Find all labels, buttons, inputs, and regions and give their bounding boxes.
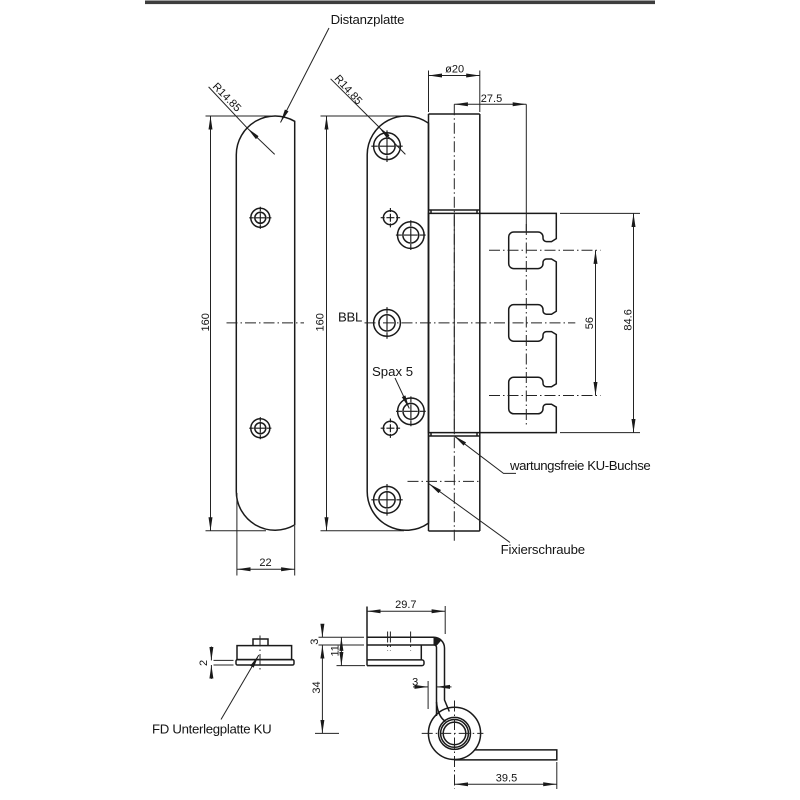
dimension 11 [340, 637, 342, 665]
dimension o20 [429, 75, 480, 77]
svg-text:wartungsfreie KU-Buchse: wartungsfreie KU-Buchse [509, 458, 650, 473]
border frame top edge (cropped drawing frame) [145, 1, 655, 5]
svg-text:Spax 5: Spax 5 [372, 364, 413, 379]
knuckle curl outer circle [428, 707, 480, 759]
hole lower (Distanzplatte) [249, 417, 271, 439]
keyhole bottom slot centerline [489, 395, 601, 397]
bushing outer circle [439, 717, 471, 749]
Fixierschraube axis centerline [408, 480, 481, 482]
svg-text:ø20: ø20 [445, 63, 464, 75]
leader wartungsfreie KU-Buchse [454, 436, 516, 474]
svg-text:Fixierschraube: Fixierschraube [501, 542, 585, 557]
keyhole slot center vertical extension line [525, 104, 527, 231]
dimension 160 (left plate) extension lines [206, 116, 275, 531]
bushing inner circle [441, 720, 469, 748]
hole middle (hinge leaf) [374, 307, 401, 339]
svg-text:11: 11 [329, 645, 341, 656]
hinge leaf plate outline [367, 116, 428, 530]
dimension o20 extension lines [429, 71, 480, 113]
dimension 84.6 [633, 213, 635, 432]
lower bushing washer sides (KU-Buchse) [431, 433, 477, 436]
knuckle axis centerline [453, 104, 455, 543]
curl center crosshair [422, 701, 484, 790]
svg-text:22: 22 [259, 557, 271, 569]
svg-text:3: 3 [309, 639, 321, 645]
clamp lip section [367, 645, 424, 666]
dimension 22 extension lines [237, 493, 295, 576]
radius leader R14.85 (left plate) [248, 128, 275, 154]
dimension 34 extension stub [315, 732, 339, 734]
bottom barrel bottom edge [429, 530, 480, 532]
dimension 2 extension lines [214, 660, 234, 665]
small hole lower (hinge leaf) [381, 419, 400, 438]
dimension 3 (gap) extension line [427, 681, 429, 709]
dimension 3 (leaf thickness) extension lines [319, 637, 366, 665]
svg-text:Distanzplatte: Distanzplatte [331, 12, 405, 27]
svg-text:BBL: BBL [338, 310, 362, 325]
dimension 39.5 extension line right [556, 762, 558, 789]
svg-text:29.7: 29.7 [395, 599, 416, 611]
frame plate outline with three keyhole cutouts [429, 213, 557, 432]
leader Distanzplatte [281, 28, 330, 123]
dimension 3 (gap) arrows [413, 686, 428, 688]
hole bottom (hinge leaf) [371, 484, 402, 516]
knuckle top edge [429, 113, 480, 115]
radius leader R14.85 (hinge leaf) [379, 127, 406, 154]
FD Unterlegplatte centerline [259, 636, 261, 671]
svg-text:34: 34 [311, 681, 323, 693]
screw axis pair (section) [388, 632, 411, 651]
svg-text:56: 56 [584, 317, 596, 329]
knuckle barrel left edge [428, 114, 430, 531]
curl spiral inner transition [437, 702, 446, 722]
bottom barrel top edge [429, 435, 480, 437]
dimension 27.5 [454, 103, 526, 105]
dimension 56 [595, 250, 597, 395]
svg-text:84.6: 84.6 [623, 309, 635, 330]
svg-text:160: 160 [314, 313, 326, 331]
svg-text:160: 160 [200, 313, 212, 331]
svg-text:3: 3 [412, 676, 418, 688]
svg-text:R14.85: R14.85 [332, 73, 365, 107]
dimension 3 (leaf thickness) arrow [321, 626, 323, 637]
keyhole top slot centerline [489, 249, 601, 251]
pin bore circle [443, 722, 466, 745]
svg-text:FD Unterlegplatte KU: FD Unterlegplatte KU [152, 722, 271, 737]
keyhole slot vertical centerline [525, 224, 527, 426]
dimension 39.5 [455, 783, 557, 785]
leaf section top edge with bend [367, 637, 449, 711]
hinge leaf centerline (BBL axis) [365, 322, 576, 324]
bend corner fill [434, 637, 442, 646]
Distanzplatte plate outline [236, 116, 294, 530]
Distanzplatte centerline [227, 322, 305, 324]
offset hole upper (hinge leaf) [396, 220, 426, 250]
top barrel bottom edge [429, 209, 480, 211]
FD Unterlegplatte top tab [253, 639, 268, 646]
small hole upper (hinge leaf) [381, 208, 400, 227]
dimension 160 (left plate) [210, 116, 212, 531]
frame leaf bend line through plate [453, 213, 455, 432]
svg-text:27.5: 27.5 [481, 93, 502, 105]
FD Unterlegplatte bottom lip [236, 660, 294, 665]
dimension 160 (hinge leaf) extension lines [321, 116, 405, 531]
dimension 29.7 [367, 610, 445, 612]
svg-text:2: 2 [198, 660, 210, 666]
dimension 34 [321, 645, 323, 733]
leaf section left end edge [366, 607, 368, 666]
knuckle barrel right edge [479, 114, 481, 531]
upper bushing washer sides [431, 210, 477, 213]
dimension 84.6 extension lines [560, 213, 640, 432]
offset hole lower / Spax hole (hinge leaf) [396, 396, 426, 426]
door leaf strip section [455, 750, 557, 760]
leader FD Unterlegplatte KU [221, 655, 259, 720]
svg-text:R14.85: R14.85 [210, 81, 243, 115]
dimension 29.7 extension line right [444, 606, 446, 634]
dimension 160 (hinge leaf) [326, 116, 328, 531]
svg-text:39.5: 39.5 [496, 773, 517, 785]
hole top (hinge leaf) [371, 130, 402, 162]
leader Fixierschraube [429, 484, 510, 543]
leaf section bottom edge with inner bend [367, 645, 437, 716]
leader Spax 5 [395, 378, 409, 409]
dimension 22 [237, 568, 295, 570]
dimension 2 arrows [210, 647, 212, 661]
FD Unterlegplatte body [237, 646, 292, 660]
hole upper (Distanzplatte) [249, 207, 271, 229]
